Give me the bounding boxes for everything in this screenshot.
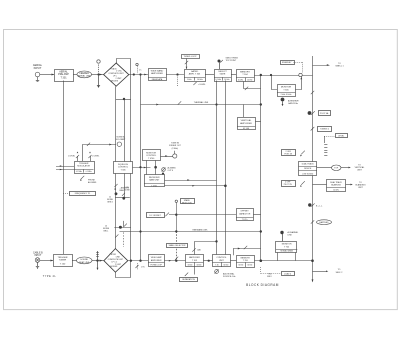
svg-text:AMPLIFIER: AMPLIFIER <box>151 72 163 75</box>
svg-text:14 kHz: 14 kHz <box>333 190 339 192</box>
transistor Q18 on bus <box>311 91 314 94</box>
node J junction <box>260 103 262 105</box>
svg-text:UNIT: UNIT <box>219 260 225 262</box>
transistor Q14 slash <box>165 213 169 217</box>
wire bus x225 <box>225 81 227 256</box>
wire A7 below stub <box>194 267 196 275</box>
net label SMALL SELECTOR <box>167 244 188 248</box>
svg-text:SQUELCH: SQUELCH <box>118 164 129 166</box>
svg-text:TUNE IN: TUNE IN <box>171 143 180 145</box>
wire drop into A6 <box>243 105 245 118</box>
transistor Q20 slash <box>311 127 315 131</box>
wire stub arrows into bus x63 <box>56 165 74 170</box>
net tiny text near bus x124 <box>124 187 130 192</box>
wire D2 bottom loop <box>116 261 131 278</box>
net label TUNING B <box>318 127 332 132</box>
transistor Q15 slash <box>192 248 201 251</box>
svg-text:INPUT: INPUT <box>34 66 42 70</box>
svg-text:POST 2N: POST 2N <box>284 154 292 156</box>
svg-text:UNIT: UNIT <box>357 170 362 172</box>
mixer D1 diamond <box>104 63 129 86</box>
wire line B <box>120 231 261 233</box>
svg-text:ADDITIONAL: ADDITIONAL <box>223 273 234 276</box>
svg-text:T 305: T 305 <box>283 89 289 91</box>
transistor Q11 on bus x116 lower <box>115 234 118 237</box>
svg-text:VERTICAL: VERTICAL <box>241 119 252 122</box>
wire A7 to C1 <box>203 260 212 262</box>
node C junction <box>139 73 141 75</box>
net label dotted top right <box>324 134 348 144</box>
transistor Q10 on bus x116 <box>114 184 117 190</box>
svg-text:LOAD 4: LOAD 4 <box>284 273 292 276</box>
wire J1 to FE1 <box>40 74 54 76</box>
transistor Q19 slash <box>311 111 315 115</box>
wire M2 to monitor column <box>133 167 151 169</box>
block M7 monitor 2 <box>276 242 298 253</box>
connector spare tap <box>175 200 177 231</box>
connector J1 aerial input <box>33 63 43 82</box>
arrow on thermal line <box>156 104 158 106</box>
block FE1 pre-amplifier <box>55 70 74 82</box>
block A1 wideband amplifier <box>148 69 167 81</box>
svg-text:MODES: MODES <box>111 80 119 82</box>
svg-text:TRIGGER: TRIGGER <box>58 257 68 259</box>
block R2 dual track blanking <box>327 180 346 192</box>
node AC junction <box>311 259 314 262</box>
svg-text:CAV: CAV <box>197 249 201 252</box>
net label FREQUENCY CHANGER <box>63 192 96 196</box>
net label LOAD <box>282 272 295 276</box>
svg-text:MODES: MODES <box>110 266 118 268</box>
svg-text:AMPLIFIER: AMPLIFIER <box>240 122 252 125</box>
block M1 trouble modulator <box>74 162 95 174</box>
svg-text:CONTROL: CONTROL <box>146 155 157 157</box>
transistor Q23 slash <box>311 220 314 223</box>
svg-text:T 700: T 700 <box>243 260 249 262</box>
svg-text:T 306: T 306 <box>120 169 126 171</box>
node spare junction <box>175 214 177 216</box>
connector noise generator <box>116 136 126 147</box>
svg-text:SELF 2: SELF 2 <box>336 272 344 274</box>
svg-text:VERTICAL: VERTICAL <box>355 166 366 169</box>
wire bridge up left <box>277 252 279 260</box>
svg-text:T 40: T 40 <box>215 264 218 266</box>
transistor Q2 slash below A2 <box>193 82 205 86</box>
svg-text:LOW SOUND: LOW SOUND <box>302 173 314 175</box>
net label PASSBAND LINK <box>193 228 209 231</box>
block M5 offset capacitor <box>236 209 254 222</box>
node K junction <box>139 166 141 168</box>
svg-text:BLANKING: BLANKING <box>331 184 341 187</box>
svg-text:A CHANNEL: A CHANNEL <box>288 231 299 234</box>
transistor Q9 aligned out <box>162 166 177 174</box>
wire bridge up right <box>295 252 297 260</box>
node M dot on bus x116 <box>115 187 130 196</box>
svg-text:MODULATOR: MODULATOR <box>77 165 90 168</box>
net label DC OFFSET <box>147 213 165 218</box>
svg-text:10 kHz: 10 kHz <box>197 79 203 81</box>
connector J2 cable input <box>33 251 43 269</box>
svg-text:FINGER OUT: FINGER OUT <box>169 145 182 147</box>
node V junction <box>139 260 141 262</box>
svg-text:0.1 MHz: 0.1 MHz <box>86 171 92 173</box>
svg-text:BLOCK DIAGRAM: BLOCK DIAGRAM <box>246 283 279 287</box>
net label SEPARATION <box>180 278 198 282</box>
svg-text:SMELL 1: SMELL 1 <box>335 65 344 67</box>
wire dashed drop x177 <box>176 231 178 260</box>
wire M1 top riser <box>83 145 117 162</box>
svg-text:AMPLIFIER: AMPLIFIER <box>151 259 162 262</box>
wire A2 to A3 <box>205 74 214 76</box>
wire bus x260 <box>260 75 262 261</box>
wire A3 to A4 <box>231 74 236 76</box>
net label TOP (lens) <box>332 165 342 171</box>
connector below C1 <box>215 270 236 279</box>
svg-text:FREQUENCY Z1: FREQUENCY Z1 <box>75 193 91 195</box>
svg-text:LINK: LINK <box>288 234 293 236</box>
svg-text:1 LEVEL: 1 LEVEL <box>68 156 75 158</box>
wire line A <box>114 227 131 229</box>
node Y junction <box>260 259 263 262</box>
block M6 memory 2 <box>236 256 254 268</box>
transistor Q12 slash line A <box>124 224 127 227</box>
ground stub below A5 <box>281 98 300 106</box>
svg-text:10 kHz: 10 kHz <box>224 79 229 81</box>
svg-text:CONTROL: CONTROL <box>216 257 227 259</box>
block A6 vertical amplifier <box>237 118 256 130</box>
wire M3 to tune-in circle <box>161 155 173 157</box>
wire A4 bottom loop <box>244 82 261 89</box>
svg-text:DEVICE: DEVICE <box>304 168 312 170</box>
net label THERMAL LINK <box>194 101 209 104</box>
svg-text:MEMORY: MEMORY <box>241 257 251 259</box>
svg-text:0.1 MHz: 0.1 MHz <box>76 171 82 173</box>
transistor Q4 slash on line <box>178 101 181 104</box>
svg-text:MONITOR: MONITOR <box>282 244 292 246</box>
svg-text:30 kHz: 30 kHz <box>188 264 193 266</box>
svg-text:1 kHz: 1 kHz <box>187 79 192 81</box>
arrow right bus bottom <box>312 279 314 282</box>
block A4 memory <box>236 70 255 82</box>
transistor Q5 <box>68 151 79 161</box>
block A5 output amplifier <box>277 85 296 97</box>
svg-text:CABLE B: CABLE B <box>33 251 43 254</box>
transistor Q1 slash <box>185 59 188 70</box>
net label TEST C <box>282 150 296 156</box>
node U junction <box>130 260 132 262</box>
wire C1 to M6 <box>230 260 236 262</box>
svg-text:SELECTOR: SELECTOR <box>182 202 192 204</box>
svg-text:RECEIVER: RECEIVER <box>149 177 160 179</box>
wire A4 to right bus <box>254 75 312 77</box>
wire M6 to monitor bridge <box>254 260 312 262</box>
svg-text:FORM LOOP: FORM LOOP <box>151 265 163 267</box>
node N dot on crossbar <box>122 193 125 200</box>
svg-text:ALLPASS: ALLPASS <box>88 181 97 184</box>
wire bus x131 <box>130 94 132 262</box>
svg-text:SOUND: SOUND <box>80 259 88 261</box>
trimmer C2 symbol <box>136 263 145 270</box>
node AA dot <box>308 111 312 115</box>
svg-text:MONITOR: MONITOR <box>281 87 292 89</box>
node L junction <box>224 185 227 188</box>
net label SOUND LINK (lens) <box>77 257 93 264</box>
svg-text:CAPACITOR: CAPACITOR <box>239 212 251 215</box>
svg-text:TUNING 2: TUNING 2 <box>320 129 329 131</box>
wire branch to A7 top <box>195 242 217 255</box>
svg-text:BEAT LINK: BEAT LINK <box>79 261 90 264</box>
svg-text:SOURCE 4 Hz: SOURCE 4 Hz <box>223 276 236 278</box>
wire M4 out1 <box>165 179 217 181</box>
svg-text:TUNED LOOP: TUNED LOOP <box>183 56 197 58</box>
svg-text:T 100: T 100 <box>60 264 66 266</box>
svg-text:BELL: BELL <box>104 231 109 233</box>
block A3 selector gate <box>214 70 232 82</box>
svg-text:41 506: 41 506 <box>243 128 250 130</box>
svg-text:PILOT 4A: PILOT 4A <box>320 112 329 115</box>
svg-text:GATE: GATE <box>220 73 226 76</box>
svg-text:BLANKING: BLANKING <box>355 183 366 186</box>
svg-text:THERMAL LINK: THERMAL LINK <box>194 101 209 104</box>
svg-text:MONITOR: MONITOR <box>146 152 156 154</box>
svg-text:T 103: T 103 <box>192 260 198 262</box>
block C1 control unit <box>212 255 230 268</box>
svg-text:10 kHz: 10 kHz <box>238 79 243 81</box>
wire stub x123 <box>123 221 125 227</box>
transistor Q16 slash on line C <box>244 246 247 249</box>
svg-text:NOISE: NOISE <box>124 190 130 192</box>
net label A NOISE GEN <box>107 196 114 204</box>
svg-text:T 8.2 k: T 8.2 k <box>242 219 248 221</box>
svg-text:30 kHz: 30 kHz <box>238 265 243 267</box>
trimmer C1 symbol <box>136 63 142 73</box>
connector tune-in <box>169 143 182 159</box>
svg-text:+ LEVEL: + LEVEL <box>198 84 206 86</box>
block M2 squelch <box>114 162 133 174</box>
svg-text:NOISE A: NOISE A <box>116 136 125 139</box>
wire T1 to link <box>72 260 77 262</box>
wire FE1 to link label <box>73 74 77 76</box>
net label T-80 <box>267 274 272 279</box>
caption BLOCK DIAGRAM <box>246 283 279 287</box>
net label SPARE SELECTOR <box>181 199 195 205</box>
net label STANDBY <box>281 61 303 73</box>
node Q junction <box>175 230 177 232</box>
svg-text:SEPARATION: SEPARATION <box>182 278 195 281</box>
wire bus x63 <box>63 81 65 255</box>
svg-text:T 304: T 304 <box>242 74 248 76</box>
wire link to diamond D2 <box>92 260 104 262</box>
svg-text:PASSBAND LINK: PASSBAND LINK <box>193 228 209 231</box>
block M3 monitor <box>143 150 161 161</box>
node F junction <box>260 74 262 76</box>
svg-text:PHONE: PHONE <box>88 180 95 182</box>
svg-text:STANDBY: STANDBY <box>282 61 292 64</box>
net label TOP OSC (lens) <box>182 55 200 59</box>
node S junction <box>215 240 217 242</box>
wire bus x140 <box>140 75 142 261</box>
wire thermal link line <box>141 104 261 106</box>
transistor Q3 slash on loop <box>245 87 248 90</box>
wire M5 to bus x260 <box>253 214 260 216</box>
wire line C <box>233 248 261 256</box>
svg-text:LEVEL: LEVEL <box>338 135 344 137</box>
svg-text:TUNER: TUNER <box>59 260 67 262</box>
svg-text:DUAL TRACK: DUAL TRACK <box>330 181 343 184</box>
svg-text:T 4700: T 4700 <box>148 158 155 160</box>
svg-text:DUAL TRACK: DUAL TRACK <box>302 162 315 165</box>
svg-text:FEEDER: FEEDER <box>80 73 90 75</box>
svg-text:PILOT 2N: PILOT 2N <box>284 184 293 186</box>
block V1 verified amplifier <box>148 255 165 267</box>
svg-text:AMPLIFIER: AMPLIFIER <box>189 256 200 259</box>
svg-text:30 kHz: 30 kHz <box>197 264 202 266</box>
svg-text:VIDEO AMP: VIDEO AMP <box>151 256 163 259</box>
wire offset line <box>169 214 236 216</box>
block A7 output amplifier 2 <box>186 255 204 268</box>
svg-text:SIGNAL IDEAS: SIGNAL IDEAS <box>280 250 293 253</box>
svg-text:MK II: MK II <box>267 276 272 278</box>
svg-text:GEN 2: GEN 2 <box>107 202 113 204</box>
svg-text:B + L.L.: B + L.L. <box>316 205 323 207</box>
node G corner to amp <box>270 74 272 76</box>
test stub at node T <box>96 251 99 270</box>
node E smoothing point <box>218 58 239 70</box>
svg-text:MEMORY: MEMORY <box>240 71 250 73</box>
transistor Q8 below M1 <box>80 175 97 184</box>
net ticks below <box>324 145 327 156</box>
svg-text:2 kHz 10 kHz: 2 kHz 10 kHz <box>281 94 292 96</box>
svg-text:DC OFFSET: DC OFFSET <box>150 215 162 217</box>
svg-text:WIDE BAND: WIDE BAND <box>151 69 164 72</box>
wire bus x116 <box>115 86 117 248</box>
transistor Q7 slash on riser <box>87 143 90 146</box>
wire A6 to bus <box>255 121 260 123</box>
wire R1 to vertical unit <box>317 167 333 169</box>
svg-text:10 kHz: 10 kHz <box>247 79 252 81</box>
svg-text:GAIN 28 Hz: GAIN 28 Hz <box>288 102 298 105</box>
svg-text:UNIT: UNIT <box>358 187 363 189</box>
svg-text:AMPL T 303: AMPL T 303 <box>189 73 201 76</box>
svg-text:1 k: 1 k <box>139 69 141 71</box>
arrow R2 to blanking unit <box>346 182 366 189</box>
wire M3 down to M4 <box>147 161 156 175</box>
block R1 dual track device <box>299 162 318 176</box>
node I junction <box>215 103 217 105</box>
node AB dot with text <box>308 203 323 207</box>
svg-text:10% PART: 10% PART <box>116 138 126 141</box>
node D junction <box>176 73 178 75</box>
block A2 gate amplifier <box>184 70 206 82</box>
block T1 trigger tuner <box>54 255 73 267</box>
wire bus to R2 <box>313 184 327 186</box>
transistor Q22 slash <box>300 181 305 187</box>
wire dotted to load label <box>261 267 282 274</box>
svg-text:T 705: T 705 <box>284 247 290 249</box>
wire dotted node D to balling label <box>177 75 179 88</box>
wire arrow to self <box>313 269 344 274</box>
arrow on riser <box>109 144 111 146</box>
transistor Q21 slash <box>300 151 305 157</box>
node H standby circle <box>299 73 302 76</box>
node X junction <box>208 260 210 262</box>
net label TYPE 4L <box>43 275 57 278</box>
wire V1 to A7 <box>164 260 185 262</box>
svg-text:(2 MHz): (2 MHz) <box>172 148 179 150</box>
wire dashed x123 to D2 <box>123 232 125 247</box>
wire crossbar below D1 <box>116 99 131 101</box>
svg-text:OFFSET: OFFSET <box>240 211 249 213</box>
transistor Q6 <box>88 151 99 161</box>
svg-text:AERIAL LINK: AERIAL LINK <box>78 75 91 78</box>
net label A NOISE <box>103 225 110 233</box>
svg-text:OUT 6: OUT 6 <box>168 170 174 172</box>
svg-text:TOP POINT: TOP POINT <box>226 60 237 62</box>
transistor Q13 slash x177 <box>175 257 178 260</box>
wire J2 to T1 <box>40 260 53 262</box>
svg-text:DATA DATA: DATA DATA <box>152 78 163 81</box>
wire M4 out2 <box>165 185 226 187</box>
node O dot on line A <box>119 226 122 229</box>
arrow to vertical unit <box>341 164 365 171</box>
node R junction <box>260 230 262 232</box>
svg-text:CONTROL: CONTROL <box>118 167 129 169</box>
svg-text:2 LEVEL: 2 LEVEL <box>92 156 99 158</box>
block M4 receiver gain <box>144 175 165 188</box>
wire crossbar at squelch foot <box>115 197 130 199</box>
node B junction <box>133 73 135 75</box>
net label FEEDER LINK (lens) <box>77 71 92 78</box>
svg-text:GATED: GATED <box>191 70 199 73</box>
svg-text:TOP: TOP <box>334 168 339 170</box>
node Z top of monitor <box>280 231 298 242</box>
svg-text:EARTHED: EARTHED <box>320 221 330 224</box>
net label PILOT A <box>319 111 331 116</box>
svg-text:INPUT: INPUT <box>34 255 41 257</box>
wire right bus <box>312 56 314 282</box>
wire branch to smell <box>313 63 345 68</box>
svg-text:T 301: T 301 <box>60 77 67 80</box>
net label TEST D <box>282 181 296 187</box>
svg-text:GAIN UNIT: GAIN UNIT <box>149 179 160 182</box>
transistor Q17 slash <box>185 273 188 276</box>
node crossbar junction <box>123 98 125 100</box>
svg-text:TYPE 4L: TYPE 4L <box>43 275 57 278</box>
wire down into A5 <box>272 75 278 90</box>
node P junction <box>139 230 141 232</box>
node W junction <box>175 260 177 262</box>
node K2 junction <box>154 166 157 169</box>
wire link to node A <box>92 74 104 76</box>
svg-text:T 4701: T 4701 <box>151 185 157 187</box>
wire D1 feedback loop top <box>117 59 131 94</box>
wire A5 out up to node H <box>295 75 302 90</box>
svg-text:SMALL SELECTOR: SMALL SELECTOR <box>169 244 186 247</box>
wire A1 to A2 <box>166 74 184 76</box>
wire D1 right to IF strip <box>129 74 148 76</box>
node A junction <box>97 73 99 75</box>
svg-text:30 kHz: 30 kHz <box>223 264 228 266</box>
svg-text:30 kHz: 30 kHz <box>247 265 252 267</box>
test stub at node A <box>97 60 100 88</box>
wire bus x216 <box>216 81 218 256</box>
net label GROUND (lens) <box>317 220 332 225</box>
svg-text:1 Hz: 1 Hz <box>141 267 145 269</box>
node T junction <box>96 259 98 261</box>
mixer D2 diamond <box>104 249 128 273</box>
wire D2 to V1 <box>128 260 148 262</box>
wire bus x124 <box>124 99 126 198</box>
